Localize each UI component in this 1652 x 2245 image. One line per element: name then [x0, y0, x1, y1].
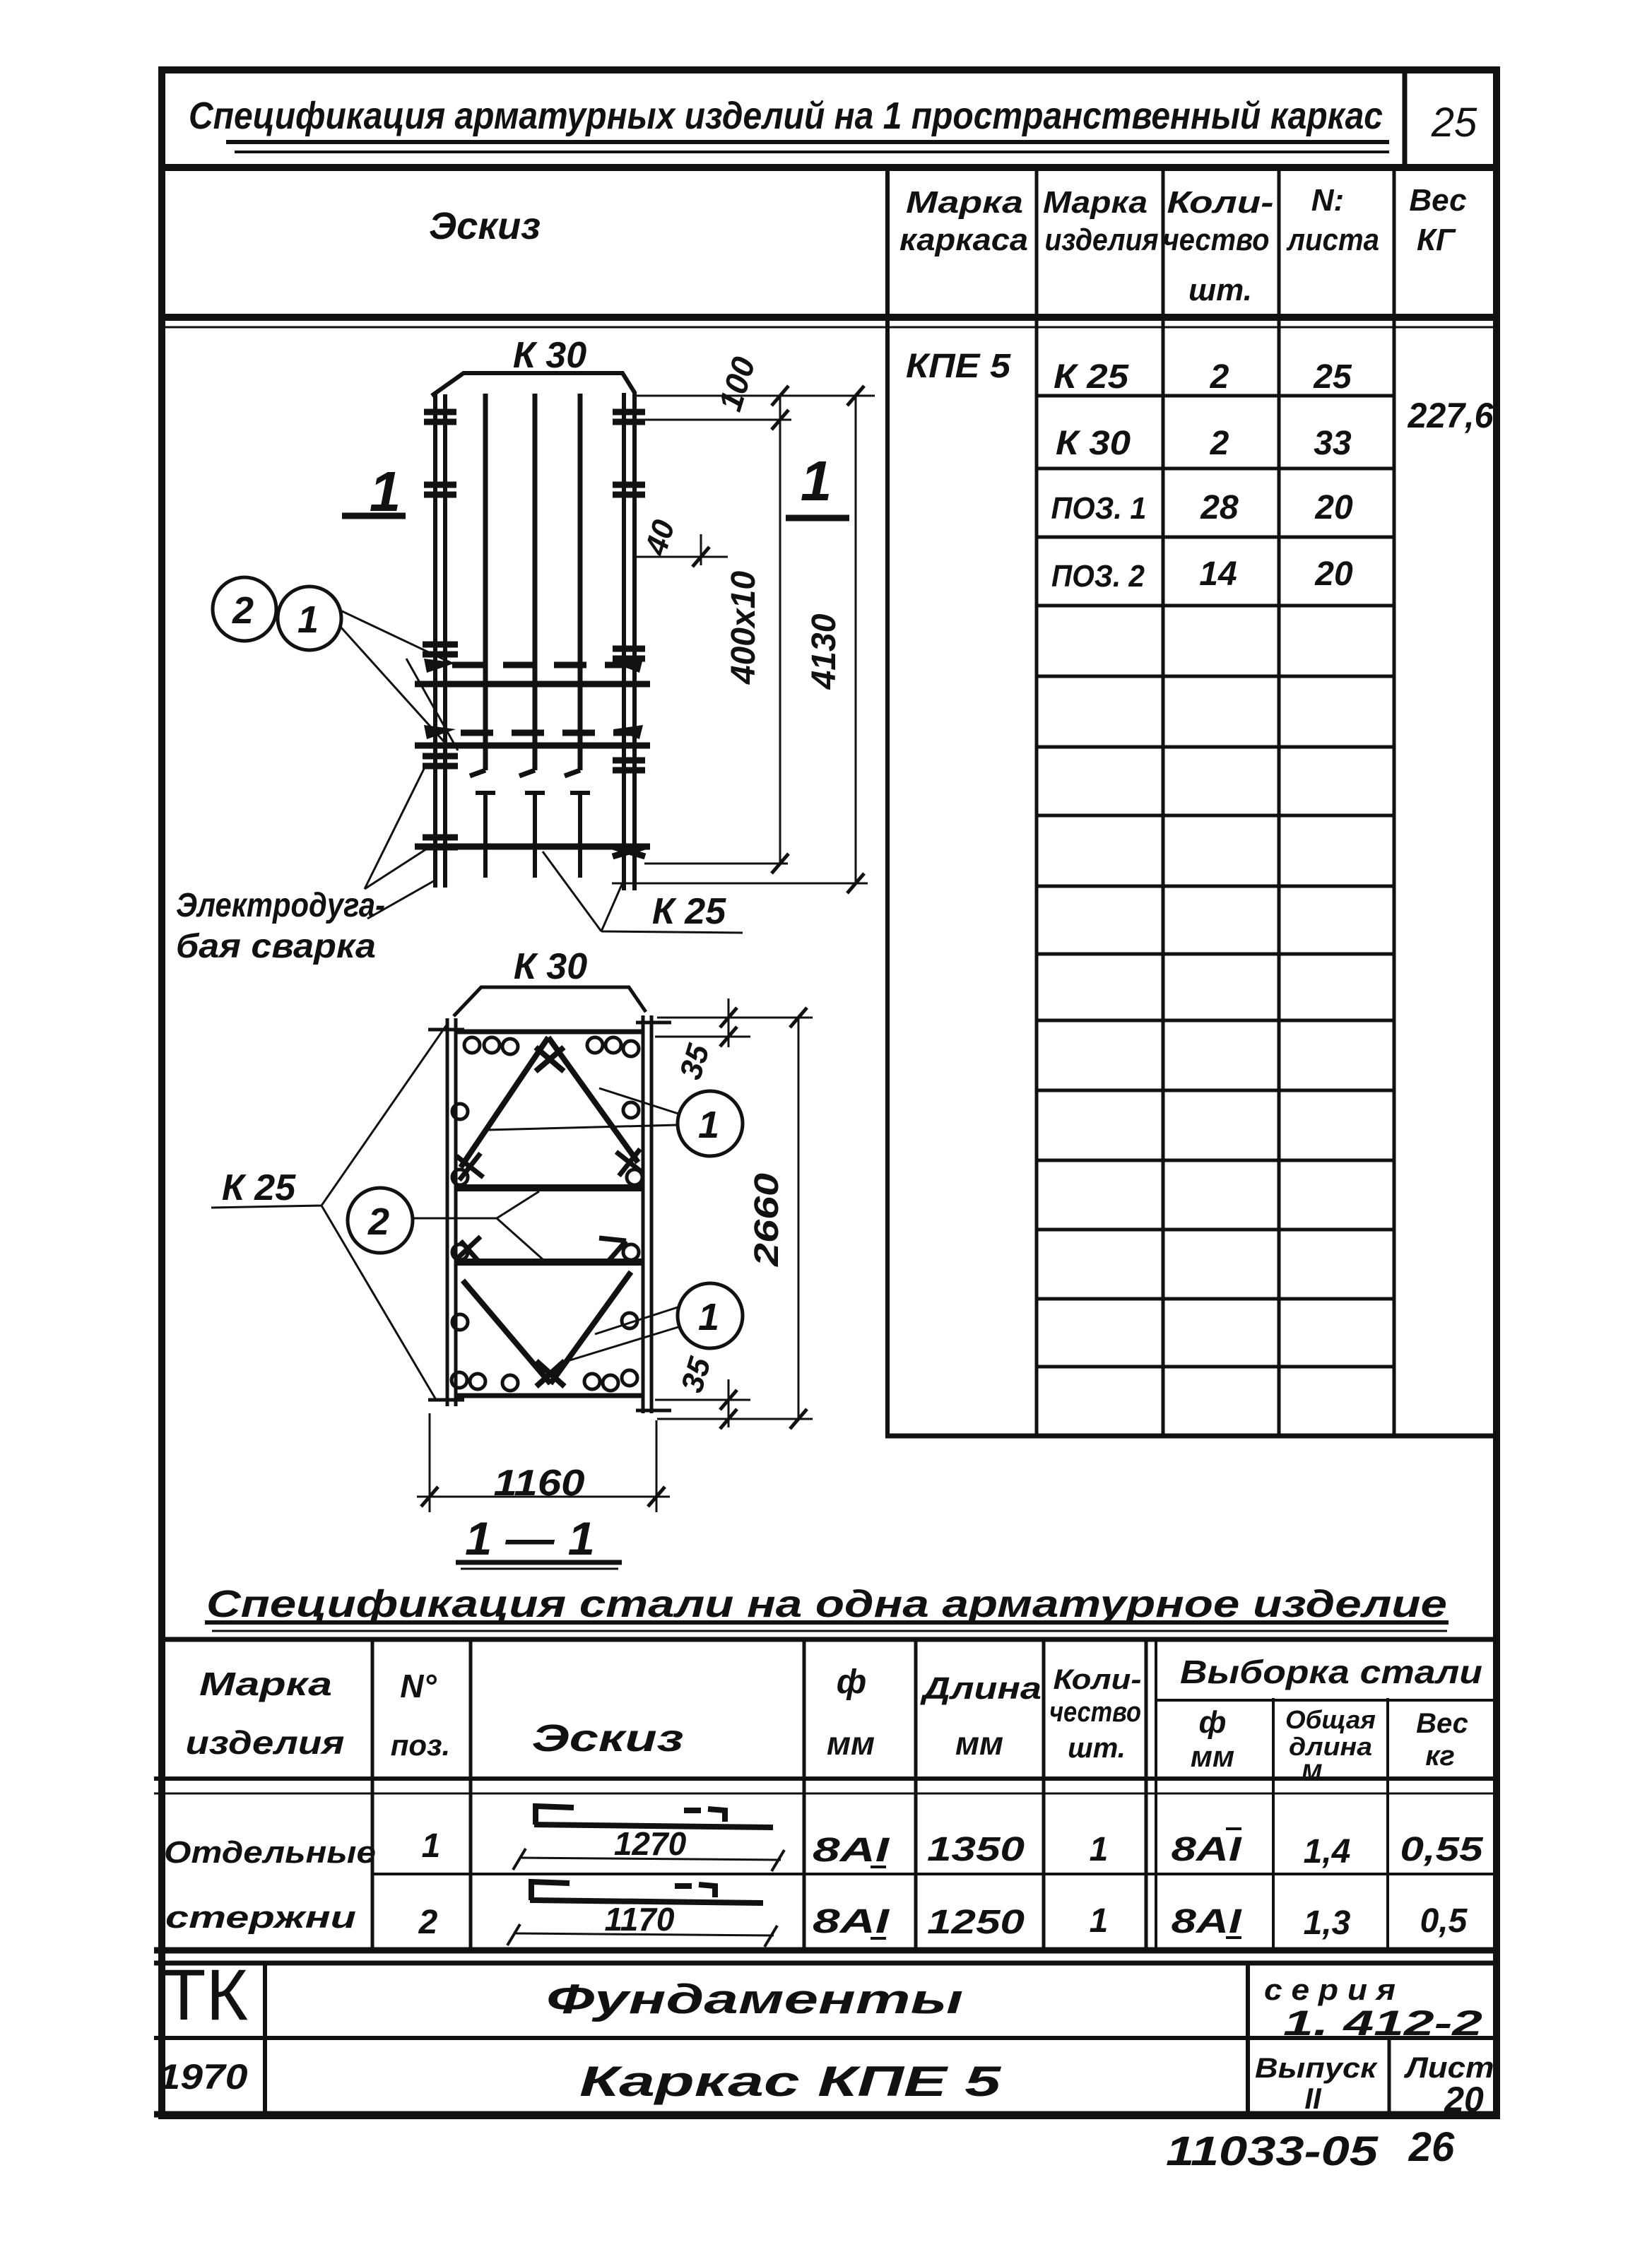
- lower table grid: [154, 1639, 1499, 1950]
- svg-text:1,4: 1,4: [1304, 1833, 1351, 1870]
- top V lacing bars pos 1: [461, 1037, 638, 1167]
- svg-text:Спецификация стали на одна: Спецификация стали на одна арматурное из…: [206, 1583, 1447, 1625]
- svg-text:26: 26: [1408, 2124, 1455, 2170]
- svg-text:2: 2: [418, 1904, 438, 1941]
- spec table column lines: [885, 167, 890, 1436]
- svg-text:1 — 1: 1 — 1: [465, 1512, 595, 1565]
- svg-text:М: М: [1302, 1760, 1322, 1786]
- svg-text:1250: 1250: [927, 1904, 1025, 1941]
- svg-text:изделия: изделия: [186, 1724, 345, 1761]
- svg-text:Марка: Марка: [199, 1666, 332, 1702]
- balloon 1 (upper right): [678, 1091, 743, 1156]
- svg-text:20: 20: [1314, 555, 1353, 593]
- dim line 4130: [855, 396, 857, 883]
- steel grade I-bars: [871, 1829, 1241, 1938]
- dim ticks upper drawing: [692, 386, 864, 893]
- svg-text:Вес: Вес: [1416, 1708, 1468, 1739]
- weld marks at V feet: [456, 1153, 483, 1180]
- svg-text:Эскиз: Эскиз: [532, 1717, 684, 1760]
- svg-text:20: 20: [1314, 489, 1353, 526]
- header double rule under column heads: [159, 314, 1499, 321]
- weld blobs at band crossings: [424, 659, 643, 673]
- svg-text:0,5: 0,5: [1420, 1902, 1468, 1940]
- svg-text:Марка: Марка: [906, 185, 1023, 220]
- svg-text:К 25: К 25: [1054, 358, 1129, 396]
- svg-text:Каркас КПЕ 5: Каркас КПЕ 5: [579, 2058, 1002, 2105]
- svg-text:К 25: К 25: [222, 1167, 296, 1208]
- svg-text:2: 2: [367, 1201, 389, 1243]
- svg-text:11033-05: 11033-05: [1166, 2128, 1379, 2174]
- svg-text:8АI: 8АI: [813, 1903, 890, 1940]
- svg-text:1: 1: [801, 449, 832, 512]
- dim 35 bottom: [655, 1400, 813, 1419]
- svg-text:бая сварка: бая сварка: [176, 928, 376, 965]
- svg-text:ф: ф: [1199, 1705, 1227, 1740]
- svg-text:Электродуга-: Электродуга-: [176, 887, 385, 924]
- bar sketch pos 1: [513, 1806, 784, 1871]
- transverse bar row 1 (dashed, pos 2): [452, 662, 640, 668]
- svg-text:Марка: Марка: [1043, 185, 1147, 220]
- svg-text:1: 1: [297, 599, 319, 641]
- svg-text:К 30: К 30: [514, 946, 587, 987]
- svg-text:1. 412-2: 1. 412-2: [1283, 2003, 1482, 2043]
- top plate К30 trapezoid: [432, 373, 635, 396]
- bottom V lacing bars pos 1: [463, 1272, 631, 1384]
- svg-text:Вес: Вес: [1409, 183, 1466, 218]
- leaders from balloons: [340, 611, 459, 750]
- svg-text:Коли-: Коли-: [1167, 185, 1274, 220]
- lower stubs of inner bars: [476, 793, 495, 878]
- svg-text:25: 25: [1431, 100, 1477, 146]
- svg-text:8АI: 8АI: [1172, 1831, 1243, 1868]
- transverse bar row 2 (solid): [415, 743, 650, 749]
- svg-text:1970: 1970: [158, 2057, 248, 2097]
- svg-text:1: 1: [422, 1827, 441, 1865]
- svg-text:шт.: шт.: [1188, 273, 1252, 307]
- svg-text:Эскиз: Эскиз: [429, 205, 541, 247]
- bar sketch pos 2: [507, 1882, 777, 1947]
- svg-text:КГ: КГ: [1417, 223, 1456, 257]
- svg-text:мм: мм: [1191, 1740, 1234, 1773]
- weld tick groups on left carcass: [423, 412, 458, 847]
- svg-text:1: 1: [698, 1296, 719, 1338]
- svg-text:чество: чество: [1049, 1697, 1141, 1728]
- weld X at top apex: [536, 1047, 564, 1071]
- spec table bottom line: [885, 1434, 1499, 1439]
- svg-text:1,3: 1,3: [1304, 1904, 1351, 1942]
- balloon 1 (lower right): [678, 1283, 743, 1348]
- right channel rail К25: [636, 1015, 671, 1413]
- svg-text:чество: чество: [1163, 223, 1270, 257]
- svg-text:2: 2: [1210, 358, 1229, 396]
- dimension extension lines (top): [635, 396, 875, 420]
- svg-text:2660: 2660: [748, 1173, 786, 1268]
- svg-text:227,6: 227,6: [1408, 396, 1494, 435]
- position balloon 2: [213, 577, 276, 641]
- svg-text:1: 1: [1090, 1902, 1109, 1940]
- left channel rail К25: [428, 1018, 464, 1406]
- dim line 2660: [798, 1018, 800, 1419]
- svg-text:Фундаменты: Фундаменты: [546, 1976, 963, 2022]
- svg-text:Спецификация арматурных изде: Спецификация арматурных изделий на 1 про…: [189, 95, 1383, 137]
- svg-text:КПЕ 5: КПЕ 5: [906, 348, 1011, 385]
- svg-text:ПОЗ. 2: ПОЗ. 2: [1051, 559, 1145, 594]
- svg-text:8АI: 8АI: [1172, 1903, 1243, 1940]
- svg-text:К 30: К 30: [513, 335, 586, 376]
- middle transverse bar (upper, pos 2): [456, 1184, 643, 1191]
- svg-text:каркаса: каркаса: [899, 223, 1028, 257]
- leaders to lower balloon 1: [558, 1307, 678, 1364]
- svg-text:1160: 1160: [494, 1463, 585, 1504]
- svg-text:с е р и я: с е р и я: [1264, 1973, 1396, 2006]
- dim 35 top: [655, 1018, 813, 1037]
- svg-text:поз.: поз.: [391, 1728, 450, 1762]
- dimension extension lines (bottom): [612, 864, 868, 883]
- hook marks at lower middle bar: [458, 1237, 480, 1263]
- leaders to upper balloon 1: [488, 1088, 678, 1130]
- К30 plate trapezoid (section): [454, 987, 646, 1016]
- right vertical carcass К25 (double bar): [622, 393, 626, 890]
- position balloon 1: [278, 587, 341, 650]
- title row bottom line: [159, 164, 1499, 171]
- svg-text:мм: мм: [827, 1725, 875, 1762]
- bottom transverse bar: [415, 844, 650, 850]
- svg-text:Отдельные: Отдельные: [164, 1835, 376, 1870]
- weld X at bottom apex: [536, 1361, 565, 1386]
- inner longitudinal bar 1: [470, 394, 485, 776]
- sheet number box divider: [1403, 70, 1408, 167]
- svg-text:II: II: [1304, 2082, 1322, 2115]
- svg-text:N:: N:: [1311, 183, 1344, 218]
- dim ticks section: [720, 1008, 807, 1429]
- svg-text:стержни: стержни: [165, 1900, 356, 1935]
- weld tick groups on right carcass: [613, 412, 645, 856]
- outer frame: [162, 70, 1497, 2116]
- svg-text:1270: 1270: [614, 1825, 687, 1862]
- svg-text:Коли-: Коли-: [1054, 1664, 1142, 1695]
- svg-text:Лист: Лист: [1403, 2051, 1494, 2084]
- title underline double: [226, 140, 1389, 144]
- svg-text:кг: кг: [1425, 1740, 1455, 1772]
- svg-text:8АI: 8АI: [813, 1832, 890, 1869]
- svg-text:1170: 1170: [605, 1901, 675, 1938]
- svg-text:400х10: 400х10: [725, 571, 762, 685]
- middle transverse bar (lower, pos 2): [456, 1259, 643, 1266]
- inner longitudinal bar 2: [519, 394, 535, 776]
- balloon 2 (left): [348, 1188, 413, 1253]
- svg-text:Выборка стали: Выборка стали: [1180, 1654, 1482, 1690]
- left vertical carcass К25 (double bar): [433, 394, 437, 888]
- svg-text:Выпуск: Выпуск: [1255, 2053, 1378, 2084]
- svg-text:К 30: К 30: [1056, 425, 1131, 462]
- svg-text:изделия: изделия: [1045, 223, 1159, 257]
- transverse bar row 2 (dashed): [461, 730, 640, 736]
- bottom chord bar: [456, 1393, 643, 1398]
- longitudinal bar sections (small circles): [452, 1037, 642, 1391]
- svg-text:1: 1: [1090, 1831, 1109, 1868]
- spec table row separators: [1037, 396, 1394, 1367]
- dim line 400x10: [779, 396, 781, 864]
- svg-text:14: 14: [1199, 555, 1237, 593]
- dim 1160: [417, 1413, 670, 1512]
- inner longitudinal bar 3: [565, 394, 580, 776]
- svg-text:25: 25: [1313, 358, 1352, 396]
- svg-text:4130: 4130: [806, 613, 843, 690]
- svg-text:ПОЗ. 1: ПОЗ. 1: [1051, 491, 1147, 526]
- weld note leaders: [365, 765, 436, 919]
- svg-text:0,55: 0,55: [1400, 1831, 1485, 1868]
- svg-text:20: 20: [1444, 2080, 1484, 2119]
- svg-text:листа: листа: [1286, 223, 1379, 257]
- svg-text:ТК: ТК: [162, 1955, 248, 2035]
- svg-text:2: 2: [232, 589, 254, 632]
- top chord bar: [456, 1030, 643, 1035]
- svg-text:2: 2: [1210, 425, 1229, 462]
- svg-text:мм: мм: [955, 1725, 1003, 1762]
- svg-text:ф: ф: [837, 1663, 866, 1701]
- svg-text:длина: длина: [1289, 1732, 1372, 1761]
- svg-text:28: 28: [1200, 489, 1239, 526]
- svg-text:шт.: шт.: [1068, 1733, 1126, 1764]
- svg-text:N°: N°: [400, 1668, 437, 1704]
- svg-text:Длина: Длина: [919, 1671, 1042, 1706]
- svg-text:33: 33: [1314, 425, 1352, 462]
- svg-text:Общая: Общая: [1285, 1705, 1376, 1734]
- leaders from balloon 2: [413, 1191, 543, 1259]
- svg-text:К 25: К 25: [652, 891, 726, 932]
- svg-text:1350: 1350: [927, 1831, 1025, 1868]
- svg-text:1: 1: [698, 1104, 719, 1146]
- transverse bar row 1 (solid, pos 1): [415, 681, 650, 688]
